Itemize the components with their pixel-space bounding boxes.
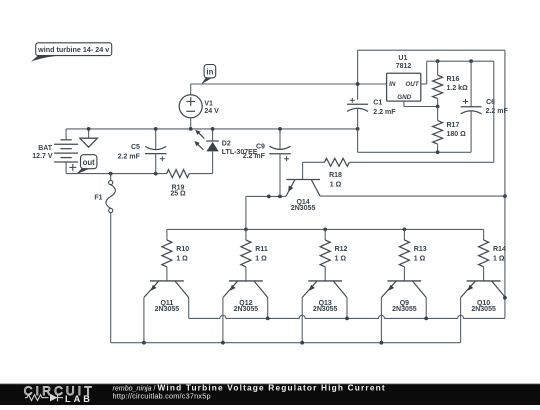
svg-text:2.2 mF: 2.2 mF <box>243 153 266 160</box>
svg-text:2.2 mF: 2.2 mF <box>373 109 396 116</box>
node: C9 top junction <box>278 127 282 131</box>
resistor R11 1 Ω <box>241 229 251 281</box>
svg-text:R18: R18 <box>329 172 342 179</box>
label R17 value <box>447 131 467 138</box>
wire: U1 OUT pin up to OUT rail <box>421 61 494 84</box>
node: C5 top junction <box>154 127 158 131</box>
label R12 value <box>335 255 347 262</box>
svg-text:1 Ω: 1 Ω <box>255 255 267 262</box>
node: GND/R16/R17 junction <box>436 105 440 109</box>
label Q12 part <box>234 306 259 313</box>
label Q14 <box>296 199 309 206</box>
label C6 value <box>486 108 509 115</box>
label 12.7 V <box>32 153 53 160</box>
label V1 <box>204 101 213 108</box>
resistor R10 1 Ω <box>162 229 172 281</box>
svg-text:R11: R11 <box>255 246 268 253</box>
node: C5 bottom junction <box>154 172 158 176</box>
svg-text:wind turbine 14- 24 v: wind turbine 14- 24 v <box>37 45 109 54</box>
wire: Q14 emitter rail (output) <box>246 195 286 197</box>
label C9 value <box>243 153 266 160</box>
label Q9 part <box>392 306 417 313</box>
CircuitLab logo: resistor-diode glyph <box>25 394 63 402</box>
svg-text:IN: IN <box>389 81 396 88</box>
svg-text:R12: R12 <box>335 246 348 253</box>
node: V1 bottom junction <box>189 127 193 131</box>
pin label OUT <box>405 81 419 88</box>
svg-text:1 Ω: 1 Ω <box>176 255 188 262</box>
op-amp U1 7812 regulator box <box>387 73 421 101</box>
svg-text:12.7 V: 12.7 V <box>32 153 53 160</box>
node: Q12 collector junction <box>266 317 270 321</box>
wire: fuse F1 down to emitter bottom rail <box>110 213 112 343</box>
wire: collector rail (to 24 V bus, hops over emitter wires) <box>189 315 505 318</box>
node: Q13 emitter junction <box>300 341 304 345</box>
footer black bar <box>0 383 540 405</box>
svg-text:R16: R16 <box>447 76 460 83</box>
label F1 <box>94 194 102 201</box>
label Q13 part <box>313 306 338 313</box>
svg-text:2.2 mF: 2.2 mF <box>118 154 141 161</box>
node: Q9 emitter junction <box>380 341 384 345</box>
transistor Q14 2N3055 <box>286 180 320 197</box>
label R19 value <box>170 191 186 198</box>
capacitor C5 2.2 mF <box>145 129 167 174</box>
node: R16 top junction <box>436 59 440 63</box>
label R13 value <box>414 255 426 262</box>
node: R13 feed junction <box>403 228 407 232</box>
label R18 <box>329 172 342 179</box>
wire: Q14 collector rail to 24 V bus <box>320 195 505 197</box>
svg-text:in: in <box>206 67 213 76</box>
svg-text:2N3055: 2N3055 <box>291 205 316 212</box>
transistor Q10 2N3055 <box>461 281 506 343</box>
node: Q11 emitter junction <box>142 341 146 345</box>
svg-text:1.2 kΩ: 1.2 kΩ <box>447 85 469 92</box>
label Q11 <box>160 300 173 307</box>
capacitor C1 2.2 mF <box>347 98 368 129</box>
label R10 value <box>176 255 188 262</box>
label BAT <box>38 145 53 152</box>
wire: block bottom ground edge <box>358 151 472 153</box>
wire: R18 left to Q14 base <box>303 162 325 179</box>
node: IN wire junction on left vertical <box>356 82 360 86</box>
node: D2 top junction <box>211 127 215 131</box>
svg-text:2.2 mF: 2.2 mF <box>486 108 509 115</box>
label Q9 <box>400 300 409 307</box>
label Q10 <box>477 300 490 307</box>
resistor R14 1 Ω <box>479 229 489 281</box>
label D2 <box>222 141 231 148</box>
svg-text:R13: R13 <box>414 246 427 253</box>
pin label GND <box>397 94 411 101</box>
LED D2 LTL-307EE <box>194 129 219 174</box>
svg-text:GND: GND <box>397 94 411 101</box>
label Q14 part <box>291 205 316 212</box>
resistor R19 25 Ω <box>167 170 190 178</box>
label R19 <box>172 184 185 191</box>
svg-text:LAB: LAB <box>65 394 93 404</box>
svg-text:OUT: OUT <box>405 81 419 88</box>
node: collector rail / 24 V bus junction <box>503 194 507 198</box>
svg-text:D2: D2 <box>222 141 231 148</box>
label R10 <box>176 246 189 253</box>
voltage source V1 24 V <box>179 84 202 129</box>
svg-text:R14: R14 <box>493 246 506 253</box>
svg-text:7812: 7812 <box>396 63 412 70</box>
capacitor C9 2.2 mF <box>269 129 291 197</box>
svg-text:http://circuitlab.com/c37nx5p: http://circuitlab.com/c37nx5p <box>113 392 211 401</box>
label V1 value <box>204 108 219 115</box>
label C5 value <box>118 154 141 161</box>
ground symbol <box>80 129 98 147</box>
transistor Q12 2N3055 <box>223 281 268 343</box>
wire: emitter rail down to base distribution rail <box>245 196 247 229</box>
svg-text:U1: U1 <box>398 55 407 62</box>
label C6 <box>486 99 495 106</box>
transistor Q11 2N3055 <box>144 281 189 343</box>
footer url line <box>113 392 211 401</box>
label C5 <box>131 144 140 151</box>
label U1 <box>398 55 407 62</box>
svg-text:C1: C1 <box>373 99 382 106</box>
transistor Q9 2N3055 <box>381 281 426 343</box>
svg-text:V1: V1 <box>204 101 213 108</box>
label R14 <box>493 246 506 253</box>
label C9 <box>256 144 265 151</box>
label R18 value <box>330 181 342 188</box>
annotation flag: out (node label on battery + rail) <box>76 155 97 175</box>
node: C6 top junction <box>469 59 473 63</box>
wire: battery + rail to R19 <box>66 173 167 175</box>
svg-text:2N3055: 2N3055 <box>313 306 338 313</box>
label Q11 part <box>155 306 180 313</box>
pin label IN <box>389 81 396 88</box>
wire: 24 V bus right vertical <box>504 50 506 318</box>
node: C9 bottom junction <box>278 195 282 199</box>
svg-text:2N3055: 2N3055 <box>155 306 180 313</box>
resistor R13 1 Ω <box>399 229 409 281</box>
label D2 part number <box>222 149 258 156</box>
label R17 <box>447 122 460 129</box>
svg-text:1 Ω: 1 Ω <box>330 181 342 188</box>
svg-text:BAT: BAT <box>38 145 53 152</box>
annotation callout: wind turbine 14- 24 v <box>31 43 112 62</box>
label Q13 <box>319 300 332 307</box>
CircuitLab logo: LAB text <box>65 394 93 404</box>
battery BAT 12.7 V <box>54 129 78 174</box>
fuse F1 <box>106 174 116 213</box>
wire: block left vertical (IN bus / C1 branch) <box>357 50 359 100</box>
wire: base distribution rail <box>167 228 484 230</box>
CircuitLab logo: CIRCUIT text <box>24 384 95 398</box>
node: R12 feed junction <box>323 228 327 232</box>
resistor R18 1 Ω <box>324 158 349 166</box>
svg-text:2N3055: 2N3055 <box>392 306 417 313</box>
svg-text:R10: R10 <box>176 246 189 253</box>
annotation flag: in (node label on V1 top wire) <box>201 65 216 85</box>
svg-text:2N3055: 2N3055 <box>234 306 259 313</box>
svg-text:R17: R17 <box>447 122 460 129</box>
svg-text:24 V: 24 V <box>204 108 219 115</box>
label R14 value <box>493 255 505 262</box>
label Q12 <box>239 300 252 307</box>
label R11 <box>255 246 268 253</box>
label C1 value <box>373 109 396 116</box>
label R13 <box>414 246 427 253</box>
wire: block top edge (24 V bus) <box>358 49 505 51</box>
resistor R17 180 Ω <box>433 107 443 153</box>
wire: left vertical below ground rail to block bottom <box>357 129 359 152</box>
capacitor C6 2.2 mF <box>461 61 482 152</box>
wire: R19 right to D2 bottom <box>189 173 212 175</box>
label R12 <box>335 246 348 253</box>
node: Q9 collector junction <box>424 317 428 321</box>
node: R17 bottom junction <box>436 150 440 154</box>
svg-text:F1: F1 <box>94 194 102 201</box>
footer title line <box>113 382 386 392</box>
label R11 value <box>255 255 267 262</box>
node: Q13 collector junction <box>345 317 349 321</box>
svg-text:C5: C5 <box>131 144 140 151</box>
wire: V1 top to U1 IN pin <box>191 83 387 85</box>
node: ground stem junction <box>87 127 91 131</box>
wire: ground rail from battery top to regulator block <box>66 128 358 130</box>
svg-text:1 Ω: 1 Ω <box>414 255 426 262</box>
node: out-rail / fuse junction <box>109 172 113 176</box>
resistor R16 1.2 kΩ <box>433 61 443 106</box>
svg-text:out: out <box>83 158 96 167</box>
node: Q10 collector junction on 24 V bus <box>503 296 507 300</box>
label Q10 part <box>471 306 496 313</box>
svg-text:25 Ω: 25 Ω <box>170 191 186 198</box>
wire: U1 GND pin to R16/R17 junction <box>404 101 438 106</box>
node: emitter rail mid junction <box>267 195 271 199</box>
svg-text:2N3055: 2N3055 <box>471 306 496 313</box>
node: Q12 emitter junction <box>221 341 225 345</box>
svg-text:180 Ω: 180 Ω <box>447 131 467 138</box>
wire: emitter bottom rail <box>111 342 461 344</box>
svg-text:1 Ω: 1 Ω <box>335 255 347 262</box>
wire: OUT rail down right side to R18 wire <box>349 61 493 162</box>
transistor Q13 2N3055 <box>302 281 347 343</box>
label R16 value <box>447 85 469 92</box>
label U1 part 7812 <box>396 63 412 70</box>
svg-text:1 Ω: 1 Ω <box>493 255 505 262</box>
label C1 <box>373 99 382 106</box>
node: R11 feed junction <box>244 228 248 232</box>
node: C1 bottom junction on ground rail <box>356 127 360 131</box>
label R16 <box>447 76 460 83</box>
svg-text:C9: C9 <box>256 144 265 151</box>
resistor R12 1 Ω <box>320 229 330 281</box>
